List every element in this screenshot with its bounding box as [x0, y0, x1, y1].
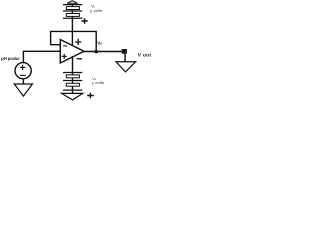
junction dot at node Vo [94, 50, 98, 54]
battery B2 (bottom) plates [63, 72, 82, 74]
U1 negative supply marker [77, 58, 82, 60]
V1 plus marker [20, 65, 25, 70]
svg-text:y volts: y volts [92, 80, 105, 85]
wire op-amp output to terminal [83, 51, 122, 53]
svg-text:V out: V out [138, 53, 152, 59]
feedback wire output to inverting input [51, 31, 97, 51]
output terminal square [122, 49, 127, 54]
U1 noninverting input marker [62, 54, 67, 59]
bottom supply wire op-amp V- to battery [72, 56, 74, 72]
op-amp U1 [60, 40, 84, 64]
ground below probe [14, 84, 32, 96]
wire terminal to ground [124, 54, 126, 62]
svg-text:pH probe: pH probe [1, 56, 20, 61]
voltage source V1 (pH probe) [15, 63, 31, 79]
wire probe bottom to ground [22, 79, 24, 84]
U1 inverting input marker [63, 45, 67, 47]
wire probe top to op-amp noninverting input [23, 51, 61, 63]
svg-text:Vo: Vo [97, 41, 102, 46]
B2 plus terminal marker [87, 93, 94, 98]
ground above top battery [67, 1, 78, 4]
U1 positive supply marker [75, 39, 81, 45]
V1 minus marker [20, 74, 26, 76]
B1 plus terminal marker [81, 18, 87, 24]
svg-text:y volts: y volts [90, 8, 103, 13]
ground below bottom battery [62, 93, 83, 100]
ground at output [116, 62, 136, 72]
top supply wire battery to op-amp V+ [71, 19, 73, 46]
battery B1 (top) plates [63, 4, 82, 6]
